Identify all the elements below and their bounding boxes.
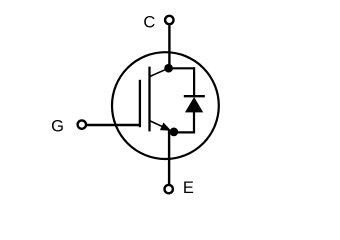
diode D1 cathode bar: [184, 95, 205, 97]
terminal G open circle: [78, 120, 86, 128]
IGBT emitter diagonal: [150, 121, 166, 128]
wire emitter vertical: [168, 131, 170, 186]
svg-text:C: C: [143, 14, 155, 32]
svg-text:E: E: [183, 179, 194, 197]
terminal C open circle: [165, 16, 173, 24]
IGBT emitter arrowhead: [160, 122, 171, 130]
node collector junction dot: [164, 64, 173, 73]
wire gate horizontal: [86, 124, 141, 126]
wire collector vertical: [168, 24, 170, 68]
node emitter junction dot: [170, 128, 179, 137]
IGBT channel bar: [148, 67, 150, 132]
diode D1 anode triangle: [185, 97, 203, 112]
wire diode top lead: [193, 67, 195, 96]
svg-text:G: G: [51, 118, 64, 136]
wire diode bottom lead: [193, 112, 195, 132]
terminal E open circle: [165, 185, 173, 193]
wire diode anode to emitter node: [173, 131, 196, 133]
IGBT gate bar: [139, 80, 141, 127]
wire collector to diode cathode: [169, 67, 195, 69]
transistor envelope circle: [112, 52, 219, 159]
IGBT collector diagonal: [150, 68, 169, 76]
